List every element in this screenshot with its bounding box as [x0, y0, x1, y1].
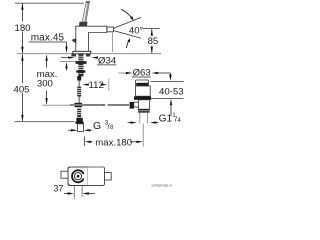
faucet body: [76, 26, 107, 53]
G3/8 fitting: [78, 124, 84, 132]
max.45 leader underline: [29, 41, 67, 43]
waste plug band: [136, 83, 148, 86]
hose ribbed segment lower: [77, 109, 81, 118]
stream extension line: [112, 33, 114, 53]
aerator box: [107, 27, 114, 32]
deck bottom edge: [60, 61, 77, 63]
G1 1/4 leader: [128, 122, 133, 124]
clamp nub left: [71, 54, 76, 57]
arrow down 180 deck: [21, 47, 23, 54]
hose collar band: [75, 122, 83, 124]
hole dim arrow right: [91, 56, 98, 58]
waste body: [138, 100, 149, 109]
hose ribbed segment upper: [77, 87, 81, 97]
waste neck: [136, 86, 151, 96]
svg-text:405: 405: [13, 85, 29, 96]
Ø63 dimension: [119, 72, 128, 74]
top reference line: [15, 2, 84, 4]
base plate: [73, 51, 91, 54]
lever base block: [79, 22, 87, 26]
cartridge outer ring: [72, 170, 84, 182]
svg-text:180: 180: [14, 23, 30, 34]
waste cap: [136, 80, 149, 86]
waste side port box: [134, 102, 139, 107]
pop-up rod left segment: [70, 104, 105, 106]
svg-text:onlinetrade.ru: onlinetrade.ru: [152, 184, 173, 188]
G3/8 leader: [68, 129, 76, 131]
arrow up 405 below deck: [21, 54, 23, 61]
bottom reference line: [15, 121, 75, 123]
37 dimension: [73, 186, 75, 199]
svg-text:37: 37: [53, 184, 63, 194]
top view aerator: [105, 172, 112, 180]
lever handle: [81, 1, 89, 26]
hose thin rod upper: [78, 81, 80, 87]
hose connector: [75, 103, 83, 107]
svg-text:40-53: 40-53: [159, 86, 184, 97]
arc arrow upper: [121, 9, 132, 17]
85 dimension: [143, 27, 160, 29]
lever dark edge: [84, 1, 90, 26]
svg-text:300: 300: [37, 79, 53, 90]
112 dimension: [82, 83, 89, 85]
40-53 upper arrow: [169, 73, 171, 77]
max.45 arrow down to deck: [65, 47, 67, 54]
waste coupling nut: [138, 109, 150, 112]
tailpipe centerline: [142, 124, 144, 147]
watermark: [152, 184, 173, 188]
dimension line 180/405 vertical: [21, 3, 23, 121]
spray fan upper line: [114, 17, 141, 28]
arrow up 180 top: [21, 3, 23, 10]
svg-text:G: G: [93, 121, 101, 132]
hole dim arrow left: [61, 57, 70, 59]
max.45 drop line: [66, 42, 68, 47]
waste side port dark: [130, 102, 134, 109]
112 extension line: [108, 79, 110, 91]
arrow down 405 bottom: [21, 115, 23, 122]
threaded rod: [78, 54, 83, 76]
shank band: [76, 70, 85, 72]
top view head outline: [68, 167, 88, 185]
clamp nub right: [86, 54, 90, 57]
hose end piece: [77, 76, 81, 81]
cartridge center dot: [77, 175, 80, 178]
tailpipe: [139, 113, 141, 124]
arc arrow lower: [126, 41, 128, 48]
lever top cap: [86, 1, 89, 3]
mounting nut: [76, 61, 87, 64]
side knob: [71, 38, 76, 43]
svg-text:G1: G1: [159, 114, 173, 125]
40-53 lower arrow: [170, 99, 172, 106]
deck line: [18, 53, 75, 55]
pop-up rod right segment: [108, 104, 129, 106]
top view left tab: [61, 171, 68, 178]
max.300 dimension: [45, 54, 47, 61]
svg-text:max.180: max.180: [95, 138, 132, 149]
top view body: [68, 167, 105, 185]
40-53 reference lines: [151, 80, 184, 82]
max.45 arrow up to deck bottom: [65, 62, 67, 69]
max.180 dimension: [83, 137, 85, 147]
hose thin rod middle: [78, 97, 80, 103]
max.300 reference line: [42, 104, 70, 106]
cartridge inner ring: [74, 173, 81, 180]
hose collar: [76, 118, 82, 122]
svg-text:85: 85: [148, 36, 159, 47]
waste o-ring: [134, 96, 151, 99]
spray fan lower line: [114, 31, 141, 39]
svg-text:40°: 40°: [129, 26, 144, 37]
